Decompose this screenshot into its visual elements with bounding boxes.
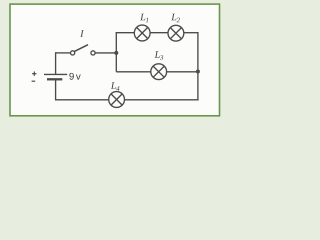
wire switch rail left xyxy=(55,52,70,54)
wire L1 to L2 xyxy=(150,32,168,34)
wire right rail vertical xyxy=(197,32,199,100)
battery negative plate xyxy=(47,78,62,80)
battery positive plate xyxy=(44,73,67,75)
white panel with green border frame xyxy=(10,4,220,116)
switch I left terminal xyxy=(71,51,75,55)
switch I blade xyxy=(74,45,88,52)
label I (switch) xyxy=(80,30,84,37)
label 9 v (battery value) xyxy=(69,73,80,80)
wire battery negative down xyxy=(55,79,57,100)
wire L2 to right rail xyxy=(184,32,199,34)
junction node A (switch rail meets branch line) xyxy=(114,51,118,55)
wire L3 to right rail xyxy=(167,71,198,73)
label L2 xyxy=(171,14,180,23)
wire battery positive up xyxy=(55,52,57,74)
lamp L3 xyxy=(151,64,167,80)
wire top branch to L1 xyxy=(116,32,135,34)
lamp L2 xyxy=(168,25,184,41)
battery polarity - xyxy=(32,80,36,82)
wire L3 branch left xyxy=(116,71,151,73)
wire L4 to right rail xyxy=(124,99,198,101)
label L4 xyxy=(111,82,120,91)
wire bottom rail to L4 xyxy=(55,99,109,101)
label L1 xyxy=(140,14,148,23)
junction node B (L3 branch meets right rail) xyxy=(196,70,200,74)
battery polarity + xyxy=(32,72,36,76)
wire parallel branch vertical xyxy=(115,32,117,72)
outer background xyxy=(0,0,227,126)
lamp L1 xyxy=(134,25,150,41)
lamp L4 xyxy=(109,92,125,108)
wire switch to node A xyxy=(95,52,117,54)
switch I right terminal xyxy=(91,51,95,55)
label L3 xyxy=(155,51,164,60)
